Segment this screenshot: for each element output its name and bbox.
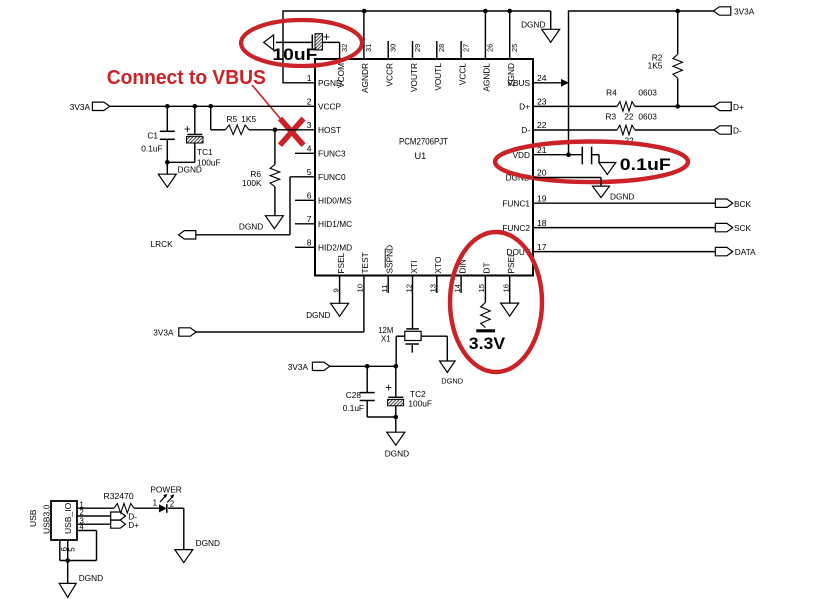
ground DGND pin9 xyxy=(331,303,349,316)
wire VBUS pin24 to 3V3A rail xyxy=(533,82,564,84)
wire USB pin5 stub xyxy=(67,540,69,561)
svg-text:USB_IO: USB_IO xyxy=(63,502,73,534)
pin 29 stub xyxy=(412,41,414,59)
wire to DGND xyxy=(67,561,69,584)
svg-text:D+: D+ xyxy=(733,102,744,112)
svg-text:VCCP: VCCP xyxy=(318,102,342,112)
svg-text:30: 30 xyxy=(389,44,398,52)
svg-text:17: 17 xyxy=(537,242,547,252)
wire D+ pin23 to R4 xyxy=(533,105,617,107)
wire 3V3A to crystal tap xyxy=(330,365,397,367)
wire XTI pin12 to crystal xyxy=(412,276,414,329)
svg-text:7: 7 xyxy=(307,214,312,224)
svg-text:HID1/MC: HID1/MC xyxy=(318,219,352,229)
wire C28 TC2 ground link xyxy=(367,416,396,418)
resistor R5 xyxy=(211,129,226,131)
annotation red ellipse around 10uF xyxy=(241,20,362,66)
arrow junction VBUS xyxy=(561,79,569,87)
svg-text:TEST: TEST xyxy=(360,252,370,273)
annotation red ellipse around VDD cap xyxy=(495,142,688,183)
svg-text:3V3A: 3V3A xyxy=(288,362,309,372)
svg-text:0603: 0603 xyxy=(638,112,657,122)
port SCK xyxy=(715,223,732,231)
svg-text:BCK: BCK xyxy=(734,199,752,209)
svg-text:1K5: 1K5 xyxy=(648,60,663,70)
capacitor TC1 electrolytic xyxy=(194,106,196,134)
svg-text:HID2/MD: HID2/MD xyxy=(318,243,352,253)
svg-text:DGND: DGND xyxy=(79,573,103,583)
svg-text:6: 6 xyxy=(307,191,312,201)
ground DGND LED xyxy=(175,550,193,563)
svg-text:22: 22 xyxy=(624,112,634,122)
wire USB pin1 to R32 xyxy=(77,507,114,509)
svg-text:HOST: HOST xyxy=(318,125,341,135)
capacitor 0.1uF at VDD xyxy=(581,147,583,165)
svg-text:100K: 100K xyxy=(242,178,262,188)
junction TC2/crystal xyxy=(394,364,399,369)
junction R2 bottom on D+ net xyxy=(675,104,680,109)
svg-text:TC1: TC1 xyxy=(197,147,213,157)
wire crystal left tap to 3V3A net xyxy=(396,335,405,337)
wire to DGND xyxy=(166,162,168,174)
wire 3V3A rail top to port xyxy=(569,10,714,12)
pin 4 stub xyxy=(295,152,315,154)
resistor pull-up on pin15 xyxy=(481,303,491,328)
svg-text:D-: D- xyxy=(733,126,742,136)
wire TEST pin10 to 3V3A port xyxy=(363,276,365,333)
svg-text:POWER: POWER xyxy=(150,484,181,494)
svg-text:3.3V: 3.3V xyxy=(469,334,506,353)
junction pin25 xyxy=(507,9,512,14)
svg-text:25: 25 xyxy=(510,44,519,52)
port BCK xyxy=(715,199,732,207)
wire top ground bus xyxy=(364,10,551,12)
svg-text:C28: C28 xyxy=(346,390,362,400)
resistor R3 xyxy=(617,125,635,135)
ground DGND crystal xyxy=(440,361,456,372)
svg-text:5: 5 xyxy=(67,547,76,552)
resistor R32 xyxy=(114,503,134,513)
svg-text:FUNC3: FUNC3 xyxy=(318,149,346,159)
svg-text:HID0/MS: HID0/MS xyxy=(318,196,352,206)
wire FUNC0 pin5 to LRCK xyxy=(290,176,315,178)
junction USB ground xyxy=(65,558,70,563)
annotation red X on HOST pin xyxy=(280,119,304,146)
wire crystal right tap to ground xyxy=(421,335,447,337)
svg-text:DGND: DGND xyxy=(610,191,634,201)
pin 13 stub xyxy=(436,276,438,294)
svg-text:20: 20 xyxy=(537,168,547,178)
svg-text:AGNDL: AGNDL xyxy=(482,63,492,92)
port D- xyxy=(714,126,731,134)
junction pin31 xyxy=(362,9,367,14)
svg-text:X1: X1 xyxy=(381,335,391,344)
svg-text:D+: D+ xyxy=(519,102,530,112)
wire VDD pin21 to cap xyxy=(533,154,582,156)
svg-text:DGND: DGND xyxy=(239,221,263,231)
wire FUNC2 pin18 to SCK port xyxy=(533,227,715,229)
svg-text:1K5: 1K5 xyxy=(241,114,256,124)
svg-text:FUNC1: FUNC1 xyxy=(502,198,530,208)
svg-text:22: 22 xyxy=(537,120,547,130)
svg-text:3: 3 xyxy=(307,120,312,130)
wire 3V3A to VCCP pin2 xyxy=(110,105,315,107)
wire USB pin3 to D+ port xyxy=(77,523,111,525)
svg-text:32: 32 xyxy=(340,44,349,52)
svg-text:Connect to VBUS: Connect to VBUS xyxy=(107,66,266,89)
wire FUNC1 pin19 to BCK port xyxy=(533,202,715,204)
annotation red pointer line xyxy=(252,85,287,126)
wire 3V3A vertical rail xyxy=(568,10,570,154)
wire FSEL pin9 to ground xyxy=(339,276,341,304)
svg-text:FUNC2: FUNC2 xyxy=(502,223,530,233)
resistor R2 xyxy=(677,11,679,54)
svg-text:DGND: DGND xyxy=(385,448,409,458)
ground pin16 xyxy=(501,303,519,316)
wire PSEL pin16 to ground xyxy=(509,276,511,304)
wire R4 to D+ port xyxy=(635,105,714,107)
svg-text:24: 24 xyxy=(537,73,547,83)
SSPND overline xyxy=(384,249,386,269)
IC U1 PCM2706PJT body xyxy=(315,59,533,276)
svg-text:R32470: R32470 xyxy=(104,491,134,501)
wire R5 branch from 3V3A xyxy=(210,106,212,130)
svg-text:R3: R3 xyxy=(606,112,617,122)
LED arrow 2 xyxy=(167,497,172,503)
junction R2 top xyxy=(675,9,680,14)
svg-text:10uF: 10uF xyxy=(272,45,317,64)
svg-text:XTI: XTI xyxy=(409,261,419,274)
junction VDD rail xyxy=(566,152,571,157)
svg-text:VCCL: VCCL xyxy=(457,63,467,86)
wire USB pin6 stub xyxy=(59,540,61,561)
pin 11 stub xyxy=(387,276,389,294)
svg-text:3V3A: 3V3A xyxy=(153,328,174,338)
port 3V3A top right xyxy=(714,7,731,15)
svg-text:AGNDR: AGNDR xyxy=(360,63,370,93)
wire bus to DGND xyxy=(550,11,552,29)
svg-text:1: 1 xyxy=(153,499,158,508)
wire LED to ground xyxy=(168,507,184,509)
capacitor 10uF electrolytic on VCOM pin32 xyxy=(276,41,312,43)
svg-text:R4: R4 xyxy=(606,87,617,97)
ground DGND pin20 xyxy=(593,186,610,198)
pin 28 stub xyxy=(436,41,438,59)
wire USB pin2 to D- port xyxy=(77,515,111,517)
svg-text:29: 29 xyxy=(413,44,422,52)
wire pin25 ZGND to bus xyxy=(509,11,511,59)
svg-text:26: 26 xyxy=(486,44,495,52)
junction R6 branch xyxy=(273,128,278,133)
port D+ USB xyxy=(111,520,126,528)
connector USB_IO body xyxy=(51,501,77,540)
ground DGND C1/TC1 xyxy=(158,174,176,187)
svg-text:DGND: DGND xyxy=(441,376,463,385)
svg-text:D-: D- xyxy=(521,125,530,135)
svg-text:DATA: DATA xyxy=(735,247,756,257)
svg-text:USB3.0: USB3.0 xyxy=(41,504,51,534)
svg-text:23: 23 xyxy=(537,97,547,107)
svg-text:DT: DT xyxy=(482,262,492,273)
svg-text:DGND: DGND xyxy=(521,20,545,30)
junction TC1 xyxy=(193,104,198,109)
resistor R6 xyxy=(274,130,276,165)
junction C28 xyxy=(365,364,370,369)
svg-text:0603: 0603 xyxy=(638,87,657,97)
annotation red ellipse around pin15 area xyxy=(450,232,542,372)
port D+ xyxy=(714,102,731,110)
capacitor C28 xyxy=(366,366,368,392)
svg-text:PCM2706PJT: PCM2706PJT xyxy=(399,136,448,146)
junction ground link xyxy=(165,160,170,165)
svg-text:19: 19 xyxy=(537,193,547,203)
wire DT pin15 to resistor xyxy=(484,276,486,303)
svg-text:18: 18 xyxy=(537,218,547,228)
svg-text:+: + xyxy=(385,383,392,395)
svg-text:TC2: TC2 xyxy=(410,389,426,399)
svg-text:+: + xyxy=(184,124,191,136)
svg-text:R5: R5 xyxy=(227,114,238,124)
wire DGND pin20 to ground xyxy=(533,177,601,179)
ground DGND R6 xyxy=(265,216,283,229)
port 3V3A pin10 xyxy=(179,328,196,336)
svg-text:27: 27 xyxy=(461,44,470,52)
LED arrow 1 xyxy=(160,496,165,502)
ground at VDD cap xyxy=(599,163,616,175)
svg-text:0.1uF: 0.1uF xyxy=(141,143,162,153)
port 3V3A left xyxy=(92,102,109,110)
svg-text:8: 8 xyxy=(307,238,312,248)
pin 27 stub xyxy=(460,41,462,59)
svg-text:3V3A: 3V3A xyxy=(734,7,755,17)
svg-text:VOUTR: VOUTR xyxy=(409,63,419,92)
svg-text:FSEL: FSEL xyxy=(336,252,346,273)
svg-text:5: 5 xyxy=(307,167,312,177)
junction ground link xyxy=(394,415,399,420)
svg-text:28: 28 xyxy=(437,44,446,52)
svg-text:DGND: DGND xyxy=(178,165,202,175)
svg-text:1: 1 xyxy=(307,73,312,83)
svg-text:0.1uF: 0.1uF xyxy=(343,403,364,413)
ground AGND left-pointing at 10uF xyxy=(264,35,274,50)
svg-text:D+: D+ xyxy=(128,520,139,530)
svg-text:LRCK: LRCK xyxy=(151,239,174,249)
port D- USB xyxy=(111,512,126,520)
ground DGND top xyxy=(542,29,560,42)
LED POWER diode xyxy=(159,504,167,512)
svg-text:0.1uF: 0.1uF xyxy=(620,155,671,174)
svg-text:ZGND: ZGND xyxy=(506,63,516,87)
port LRCK xyxy=(179,231,196,239)
pin 30 stub xyxy=(387,41,389,59)
svg-text:VCOM: VCOM xyxy=(336,63,346,88)
ground DGND C28/TC2 xyxy=(387,432,405,445)
svg-text:31: 31 xyxy=(364,44,373,52)
port 3V3A crystal net xyxy=(312,362,329,370)
wire DOUT pin17 to DATA port xyxy=(533,251,715,253)
wire R5 to HOST pin3 xyxy=(249,129,315,131)
svg-text:USB: USB xyxy=(28,509,38,527)
svg-text:VCCR: VCCR xyxy=(385,63,395,87)
wire to DGND xyxy=(395,417,397,432)
svg-text:SCK: SCK xyxy=(734,223,752,233)
svg-text:2: 2 xyxy=(170,499,175,508)
wire C1 TC1 ground link xyxy=(167,161,195,163)
wire R32 to LED xyxy=(134,507,159,509)
svg-text:U1: U1 xyxy=(415,151,427,161)
svg-text:FUNC0: FUNC0 xyxy=(318,172,346,182)
pin 8 stub xyxy=(295,246,315,248)
wire pin26 AGNDL to bus xyxy=(484,11,486,59)
pin 6 stub xyxy=(295,199,315,201)
svg-text:C1: C1 xyxy=(147,130,158,140)
wire R3 to D- port xyxy=(635,129,714,131)
svg-text:PSEL: PSEL xyxy=(506,252,516,274)
svg-text:+: + xyxy=(323,30,330,44)
svg-text:DGND: DGND xyxy=(196,538,220,548)
capacitor C1 xyxy=(166,106,168,131)
wire D- pin22 to R3 xyxy=(533,129,617,131)
svg-text:4: 4 xyxy=(307,144,312,154)
junction C1 xyxy=(165,104,170,109)
svg-text:2: 2 xyxy=(307,97,312,107)
junction R5 xyxy=(208,104,213,109)
svg-text:SSPND: SSPND xyxy=(385,245,395,274)
svg-text:VOUTL: VOUTL xyxy=(433,63,443,91)
port DATA xyxy=(715,247,732,255)
svg-text:DGND: DGND xyxy=(306,310,330,320)
capacitor TC2 electrolytic xyxy=(395,366,397,397)
svg-text:100uF: 100uF xyxy=(408,399,432,409)
wire pin1 PGND to ground bus xyxy=(283,82,315,84)
pin 14 stub xyxy=(460,276,462,294)
resistor R4 xyxy=(617,102,635,112)
wire R6 to DGND xyxy=(274,187,276,216)
svg-text:3V3A: 3V3A xyxy=(70,102,91,112)
crystal X1 12M resonator xyxy=(406,328,419,330)
junction pin26 xyxy=(483,9,488,14)
ground DGND USB xyxy=(59,583,76,597)
wire USB pin4 shield loop xyxy=(77,530,97,532)
power bar 3.3V xyxy=(476,329,495,332)
wire pin31 AGNDR to bus xyxy=(363,11,365,59)
svg-text:XTO: XTO xyxy=(433,256,443,273)
pin 7 stub xyxy=(295,223,315,225)
